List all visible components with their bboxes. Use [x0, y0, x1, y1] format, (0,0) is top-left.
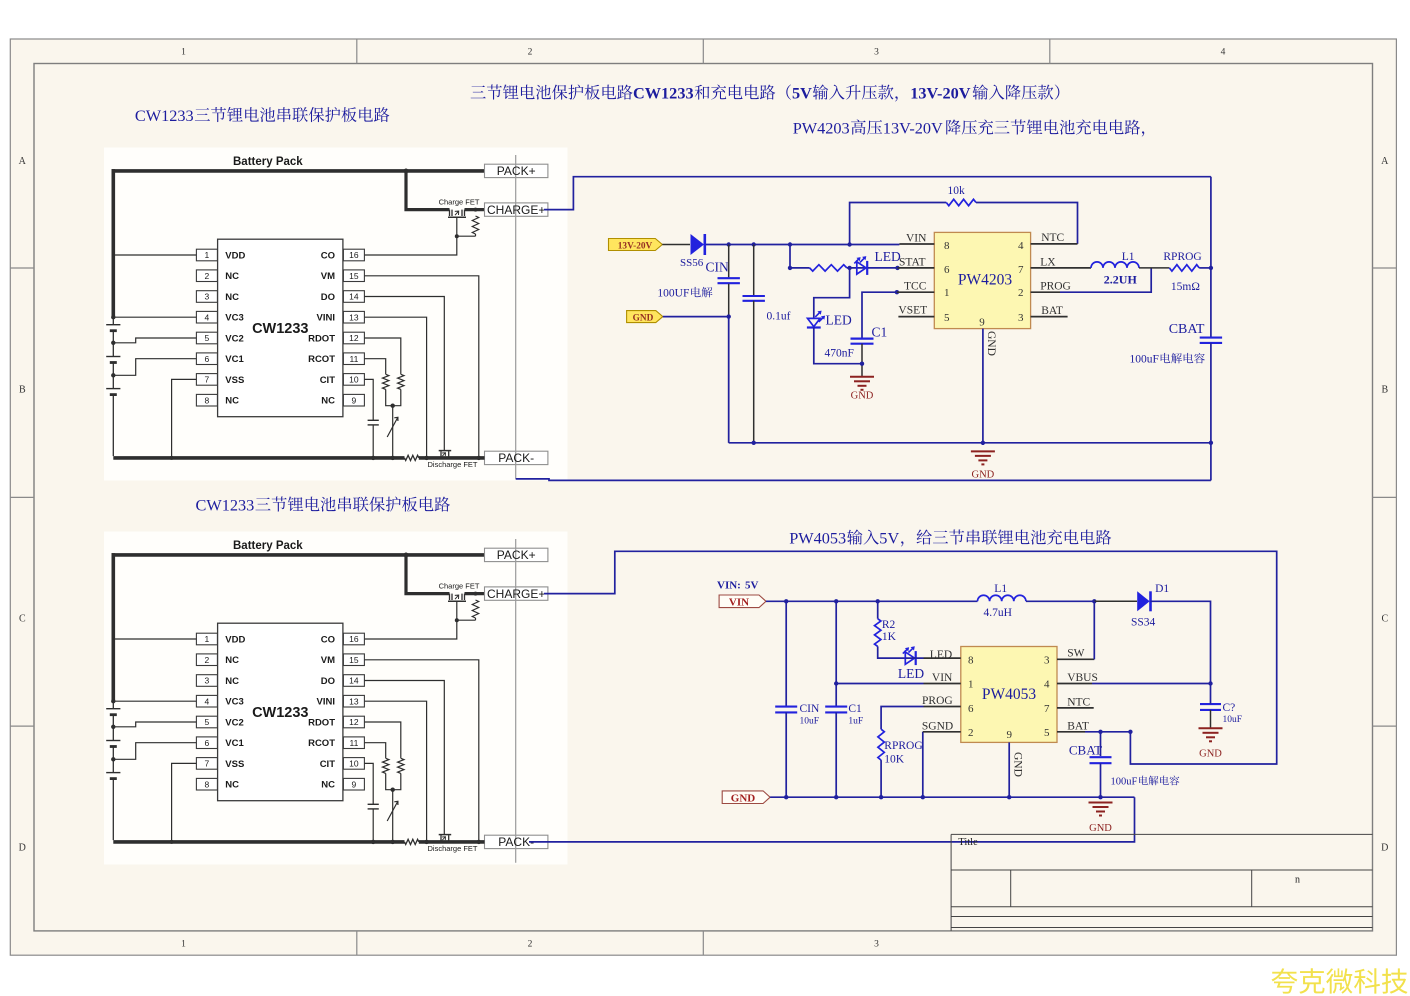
node 0.1uf mid-bus junction: [752, 441, 756, 445]
node VINI bus junction (block 2): [424, 840, 428, 844]
svg-text:CIT: CIT: [320, 375, 336, 386]
pin 2 box (block 2): [196, 654, 217, 666]
pin 12 box (block 2): [343, 716, 364, 728]
svg-text:5: 5: [205, 717, 210, 727]
wire PROG to RPROG: [881, 707, 923, 730]
node CO net junction (block 1): [455, 234, 459, 238]
svg-text:1: 1: [968, 679, 974, 691]
svg-text:4: 4: [205, 696, 210, 706]
pin 3 box (block 1): [196, 291, 217, 303]
wire rail to CBAT: [1210, 268, 1212, 337]
pin stub NTC: [1031, 243, 1078, 245]
pin stub TCC: [897, 291, 934, 293]
svg-text:SS34: SS34: [1131, 617, 1156, 629]
pin9 GND line: [982, 329, 984, 445]
capacitor 0.1uf plates: [743, 295, 765, 297]
svg-text:n: n: [1295, 875, 1300, 886]
svg-text:Title: Title: [958, 837, 978, 848]
node VSS to bus (block 1): [170, 456, 174, 460]
svg-text:100UF: 100UF: [657, 288, 689, 300]
title block left edge: [950, 834, 952, 931]
wire VC3 pin4 to rail (block 2): [113, 700, 196, 702]
node C1 branch: [834, 599, 838, 603]
wire C1 to GND bus: [835, 712, 837, 797]
wire resistor to LED1: [847, 267, 867, 269]
title block divider v1: [1010, 870, 1012, 907]
resistor sense in PACK- bus (block 1): [405, 455, 419, 460]
svg-text:9: 9: [352, 395, 357, 405]
wire BAT net: [1085, 731, 1130, 733]
svg-text:PW4053: PW4053: [789, 528, 846, 547]
wire VC1 pin6 (block 1): [113, 359, 196, 376]
pin 2 box (block 1): [196, 270, 217, 282]
pin 3 box (block 2): [196, 675, 217, 687]
svg-text:CW1233: CW1233: [252, 321, 308, 337]
node BAT loop junction: [1128, 730, 1132, 734]
svg-text:DO: DO: [321, 292, 335, 303]
capacitor CBAT plates: [1200, 337, 1222, 339]
resistor R-10k: [946, 199, 976, 205]
svg-text:CO: CO: [321, 635, 335, 646]
battery cell 1 (block 2): [106, 708, 120, 710]
wire VIN pin1 net: [836, 683, 923, 685]
wire VSS pin7 (block 2): [172, 763, 197, 840]
pin 9 box (block 1): [343, 394, 364, 406]
pin stub BAT: [1031, 316, 1068, 318]
wire TCC to C1: [862, 292, 897, 337]
svg-text:4: 4: [1221, 48, 1226, 58]
svg-text:6: 6: [205, 738, 210, 748]
svg-text:NC: NC: [225, 292, 239, 303]
svg-text:CIN: CIN: [706, 260, 730, 275]
ruler tick left C|D: [10, 725, 34, 727]
pin 12 box (block 1): [343, 332, 364, 344]
resistor RDOT (block 2): [398, 758, 404, 773]
pin stub SW(3): [1057, 658, 1094, 660]
wire GND flag to CIN: [663, 316, 729, 318]
node CIN gnd junction: [784, 795, 788, 799]
wire CIN rail: [785, 601, 787, 705]
pin stub VIN(1): [924, 683, 961, 685]
wire left battery rail (thick top) (block 1): [112, 169, 116, 317]
wire SGND to GND bus: [922, 732, 924, 797]
node SGND gnd junction: [921, 795, 925, 799]
resistor R-STAT (10k loop series): [810, 265, 847, 271]
wire CIT cap bottom (block 1): [372, 425, 374, 458]
svg-text:D1: D1: [1155, 583, 1169, 595]
svg-text:PACK-: PACK-: [498, 451, 534, 465]
wire CIN cap top: [728, 245, 730, 278]
diode SS56: [691, 234, 705, 255]
svg-text:PROG: PROG: [1040, 281, 1071, 293]
wire D1 to VBUS rail: [1150, 601, 1210, 683]
svg-text:NTC: NTC: [1067, 696, 1090, 708]
pin 8 box (block 1): [196, 394, 217, 406]
svg-text:STAT: STAT: [899, 257, 926, 269]
svg-text:Charge FET: Charge FET: [439, 198, 480, 207]
wire RDOT resistor bottom (block 1): [393, 389, 401, 405]
svg-text:GND: GND: [1012, 752, 1024, 777]
svg-text:9: 9: [1006, 729, 1012, 741]
svg-text:2: 2: [968, 727, 974, 739]
svg-text:VC3: VC3: [225, 697, 243, 708]
svg-text:Discharge FET: Discharge FET: [427, 844, 477, 853]
wire STAT branch vertical: [789, 245, 791, 268]
ruler tick top 2|3: [702, 39, 704, 64]
wire CIN bottom corner to mid bus: [728, 317, 730, 443]
battery cell 3 (block 2): [106, 772, 120, 774]
node TCC pin junction: [895, 290, 899, 294]
watermark 夸克微科技: [1271, 968, 1407, 993]
svg-text:3: 3: [205, 292, 210, 302]
svg-text:VC1: VC1: [225, 354, 244, 365]
wire VINI pin13 to bus (block 2): [365, 701, 427, 842]
node thermistor bus junction (block 2): [391, 840, 395, 844]
node 0.1uf junction: [752, 242, 756, 246]
ruler tick right C|D: [1373, 725, 1397, 727]
wire VINI pin13 to bus (block 1): [365, 317, 427, 458]
svg-text:B: B: [19, 385, 26, 396]
svg-text:5: 5: [205, 333, 210, 343]
capacitor C? plates: [1200, 703, 1221, 705]
svg-text:1: 1: [181, 940, 186, 950]
svg-text:CO: CO: [321, 251, 335, 262]
resistor RCOT (block 2): [383, 758, 389, 773]
svg-text:RDOT: RDOT: [308, 718, 335, 729]
ground GND (C1): [850, 376, 874, 378]
node CBAT gnd junction: [1098, 795, 1102, 799]
svg-text:4: 4: [1018, 240, 1024, 252]
node RDOT/RCOT junction (block 1): [391, 404, 395, 408]
wire CO node horizontal (block 2): [457, 619, 476, 621]
wire SW vertical: [1093, 601, 1095, 659]
svg-text:CBAT: CBAT: [1069, 743, 1102, 758]
svg-text:NC: NC: [321, 780, 335, 791]
wire rail cell segments (block 2): [112, 701, 114, 709]
svg-text:4.7uH: 4.7uH: [984, 607, 1012, 619]
ruler tick top 3|4: [1049, 39, 1051, 64]
svg-text:3: 3: [205, 676, 210, 686]
pin stub NTC(7): [1057, 707, 1094, 709]
ruler tick bottom 1|2: [356, 931, 358, 955]
svg-text:C: C: [1381, 614, 1388, 625]
wire CIT pin10 (block 2): [365, 763, 374, 804]
svg-text:8: 8: [205, 779, 210, 789]
svg-text:10uF: 10uF: [1223, 715, 1243, 725]
node CIN branch: [784, 599, 788, 603]
port box CHARGE+ (block 1): [485, 203, 548, 216]
svg-text:3: 3: [1018, 312, 1024, 324]
svg-text:L1: L1: [994, 583, 1007, 595]
LED D3 (charge LED): [905, 652, 914, 664]
svg-text:C?: C?: [1223, 702, 1236, 714]
svg-text:C: C: [19, 614, 26, 625]
svg-text:RPROG: RPROG: [884, 740, 922, 752]
svg-text:LED: LED: [826, 313, 852, 328]
battery cell 2 (block 2): [106, 740, 120, 742]
wire right rail lower: [1210, 443, 1212, 481]
svg-text:NTC: NTC: [1041, 232, 1064, 244]
title block divider v2: [1251, 870, 1253, 907]
node VM bus junction (block 1): [477, 456, 481, 460]
wire VDD pin1 to rail (block 2): [113, 638, 196, 640]
pin stub VSET: [898, 316, 934, 318]
svg-text:7: 7: [1018, 264, 1024, 276]
node CIT bus junction (block 2): [371, 840, 375, 844]
wire thermistor branch (block 1): [392, 406, 394, 458]
svg-text:VC2: VC2: [225, 718, 243, 729]
wire CHARGE+ #2 to loop: [544, 551, 1277, 764]
svg-text:2: 2: [528, 940, 533, 950]
pasted-image divider line (block 2): [515, 539, 517, 863]
ruler tick left A|B: [10, 267, 34, 269]
svg-text:C1: C1: [872, 325, 888, 340]
svg-text:CW1233: CW1233: [633, 83, 694, 102]
battery cell 3 (block 1): [106, 388, 120, 390]
svg-text:5: 5: [944, 312, 950, 324]
transistor Charge FET symbol (block 2): [451, 594, 453, 600]
svg-text:VIN: VIN: [906, 233, 927, 245]
pin stub LED(8): [924, 657, 961, 659]
svg-text:D: D: [19, 843, 26, 854]
ground GND (CBAT): [1089, 802, 1113, 804]
svg-text:BAT: BAT: [1067, 721, 1089, 733]
svg-text:7: 7: [205, 759, 210, 769]
wire GND bus to PACK- #2: [529, 797, 1135, 842]
svg-text:VSET: VSET: [898, 305, 927, 317]
IC U1 CW1233 body (block 1): [218, 239, 343, 417]
net label GND flag (yellow): [627, 311, 663, 323]
thermistor symbol (block 1): [387, 417, 398, 437]
wire LED2 branch: [814, 268, 850, 319]
svg-text:RCOT: RCOT: [308, 738, 335, 749]
pin stub PROG: [1031, 291, 1060, 293]
title block row line 4: [951, 916, 1372, 918]
svg-text:NC: NC: [321, 396, 335, 407]
wire PROG loop: [1060, 269, 1151, 293]
svg-text:RCOT: RCOT: [308, 354, 335, 365]
pin stub SGND(2): [923, 731, 961, 733]
svg-text:VIN: VIN: [932, 672, 953, 684]
port box CHARGE+ (block 2): [485, 587, 548, 600]
svg-text:7: 7: [205, 375, 210, 385]
node VC1 junction (block 2): [111, 757, 115, 761]
svg-text:14: 14: [349, 676, 359, 686]
svg-text:LED: LED: [930, 649, 952, 661]
svg-text:PACK+: PACK+: [497, 548, 536, 562]
pin 6 box (block 2): [196, 737, 217, 749]
wire RCOT resistor bottom (block 2): [386, 773, 393, 789]
svg-text:6: 6: [205, 354, 210, 364]
svg-text:VC3: VC3: [225, 313, 243, 324]
wire CBAT bottom: [1100, 763, 1102, 797]
wire VC1 pin6 (block 2): [113, 743, 196, 760]
svg-text:16: 16: [349, 250, 359, 260]
wire 10k loop right leg: [976, 203, 1078, 244]
svg-text:RPROG: RPROG: [1163, 251, 1201, 263]
port box PACK- (block 2): [485, 835, 548, 848]
wire RDOT resistor bottom (block 2): [393, 773, 401, 789]
svg-text:4: 4: [1044, 679, 1050, 691]
wire rail cell segments (block 1): [112, 317, 114, 325]
node VBUS rail junction: [1208, 681, 1212, 685]
wire resistor bottom (block 1): [475, 234, 477, 236]
node RPROG gnd junction: [879, 795, 883, 799]
svg-text:13V-20V: 13V-20V: [910, 83, 971, 102]
svg-text:CW1233: CW1233: [196, 495, 255, 514]
svg-text:1: 1: [205, 634, 210, 644]
title block top line: [951, 833, 1372, 835]
pin 11 box (block 2): [343, 737, 364, 749]
pin 13 box (block 2): [343, 695, 364, 707]
node junction PACK+/CHARGE+ branch (block 2): [404, 553, 409, 558]
svg-text:15: 15: [349, 655, 359, 665]
svg-text:VC1: VC1: [225, 738, 244, 749]
ruler tick bottom 2|3: [702, 931, 704, 955]
wire PACK- bus left (thick) (block 2): [113, 840, 404, 844]
resistor charge FET gate pull (block 1): [472, 216, 478, 234]
title block row line 5: [951, 927, 1372, 929]
svg-text:PW4203: PW4203: [958, 271, 1013, 288]
label VIN: 5V: [717, 580, 759, 592]
resistor sense in PACK- bus (block 2): [405, 839, 419, 844]
IC U3 PW4053 body: [961, 647, 1057, 743]
pin 14 box (block 2): [343, 675, 364, 687]
svg-text:VSS: VSS: [225, 375, 244, 386]
pin 7 box (block 1): [196, 374, 217, 386]
svg-text:12: 12: [349, 717, 359, 727]
svg-text:GND: GND: [731, 792, 756, 804]
capacitor C1 plates (1uF): [825, 706, 847, 708]
node VC1 junction (block 1): [111, 373, 115, 377]
thermistor symbol (block 2): [387, 801, 398, 821]
capacitor C1 plates: [851, 338, 874, 340]
svg-text:VIN:: VIN:: [717, 580, 741, 592]
wire CHARGE+ to top bus: [544, 177, 1211, 210]
svg-text:PW4203: PW4203: [793, 118, 850, 137]
node STAT resistor junction: [788, 266, 792, 270]
pin 10 box (block 1): [343, 374, 364, 386]
svg-text:SW: SW: [1067, 648, 1084, 660]
wire RPROG to GND bus: [880, 760, 882, 797]
wire RPROG to rail: [1199, 267, 1211, 269]
resistor R2 1K: [875, 619, 881, 647]
pin stub STAT: [898, 267, 935, 269]
pin 1 box (block 2): [196, 633, 217, 645]
svg-text:7: 7: [1044, 703, 1050, 715]
svg-text:Discharge FET: Discharge FET: [427, 460, 477, 469]
pin stub VIN: [899, 243, 934, 245]
ruler tick right A|B: [1373, 267, 1397, 269]
svg-text:GND: GND: [985, 331, 997, 356]
wire thermistor branch (block 2): [392, 790, 394, 842]
wire to STAT resistor: [790, 267, 810, 269]
svg-text:1: 1: [944, 287, 950, 299]
svg-text:4: 4: [205, 312, 210, 322]
node STAT pin junction: [895, 266, 899, 270]
pin 7 box (block 2): [196, 758, 217, 770]
pin9 GND line (U3): [1008, 742, 1010, 797]
ruler tick top 1|2: [356, 39, 358, 64]
node VC3 junction (block 1): [111, 315, 115, 319]
node VSS to bus (block 2): [170, 840, 174, 844]
battery cell 2 (block 1): [106, 356, 120, 358]
svg-text:2: 2: [528, 48, 533, 58]
svg-text:NC: NC: [225, 676, 239, 687]
wire CIT cap bottom (block 2): [372, 809, 374, 842]
pin 9 box (block 2): [343, 778, 364, 790]
svg-text:5: 5: [1044, 727, 1050, 739]
pin 11 box (block 1): [343, 353, 364, 365]
capacitor CBAT plates (U3): [1090, 756, 1112, 758]
node LED1 anode junction: [847, 266, 851, 270]
capacitor CIN plates (10uF): [775, 706, 797, 708]
wire CHARGE+ branch after FET (thick) (block 2): [465, 592, 485, 595]
wire to diode D1: [1094, 600, 1137, 602]
svg-text:VBUS: VBUS: [1067, 672, 1098, 684]
node CBAT junction: [1098, 730, 1102, 734]
wire VDD pin1 to rail (block 1): [113, 254, 196, 256]
svg-text:CIT: CIT: [320, 759, 336, 770]
title block row line 3: [951, 906, 1372, 908]
svg-text:CHARGE+: CHARGE+: [487, 203, 545, 217]
port box PACK- (block 1): [485, 451, 548, 464]
wire charge FET source to CO node (block 2): [456, 601, 458, 620]
svg-text:13: 13: [349, 696, 359, 706]
node SW junction: [1092, 599, 1096, 603]
wire GND bus: [770, 796, 1134, 798]
svg-text:VINI: VINI: [317, 697, 335, 708]
resistor RDOT (block 1): [398, 374, 404, 389]
svg-text:100uF: 100uF: [1130, 354, 1159, 366]
node VC3 junction (block 2): [111, 699, 115, 703]
wire RCOT pin11 (block 1): [365, 359, 386, 375]
pin 4 box (block 2): [196, 695, 217, 707]
wire VIN to R2: [877, 601, 879, 618]
wire mid bus: [729, 442, 1211, 444]
svg-text:10: 10: [349, 759, 359, 769]
pin 14 box (block 1): [343, 291, 364, 303]
svg-text:0.1uf: 0.1uf: [767, 311, 791, 323]
svg-text:13V-20V: 13V-20V: [618, 241, 653, 251]
net label 13V-20V flag: [609, 239, 663, 251]
svg-text:1uF: 1uF: [848, 717, 863, 727]
svg-text:2: 2: [205, 655, 210, 665]
svg-text:15: 15: [349, 271, 359, 281]
transistor Discharge FET symbol (block 1): [440, 451, 442, 458]
svg-text:CW1233: CW1233: [252, 705, 308, 721]
node charge FET resistor top (block 1): [474, 208, 478, 212]
svg-text:A: A: [1381, 156, 1389, 167]
node RPROG rail junction: [1209, 266, 1213, 270]
battery pack image background (block 1): [104, 148, 568, 481]
ground GND (C?): [1199, 727, 1223, 729]
svg-text:16: 16: [349, 634, 359, 644]
svg-text:2: 2: [205, 271, 210, 281]
wire 0.1uf top: [753, 245, 755, 296]
node charge FET resistor top (block 2): [474, 592, 478, 596]
svg-text:6: 6: [968, 703, 974, 715]
svg-text:3: 3: [874, 48, 879, 58]
wire right rail upper: [1210, 177, 1212, 268]
svg-text:VSS: VSS: [225, 759, 244, 770]
LED D-STAT (LED1): [857, 262, 866, 274]
svg-text:2.2UH: 2.2UH: [1104, 273, 1138, 287]
svg-text:RDOT: RDOT: [308, 334, 335, 345]
svg-text:C1: C1: [848, 703, 862, 715]
wire L1 to SW node: [1026, 600, 1094, 602]
pin 15 box (block 1): [343, 270, 364, 282]
